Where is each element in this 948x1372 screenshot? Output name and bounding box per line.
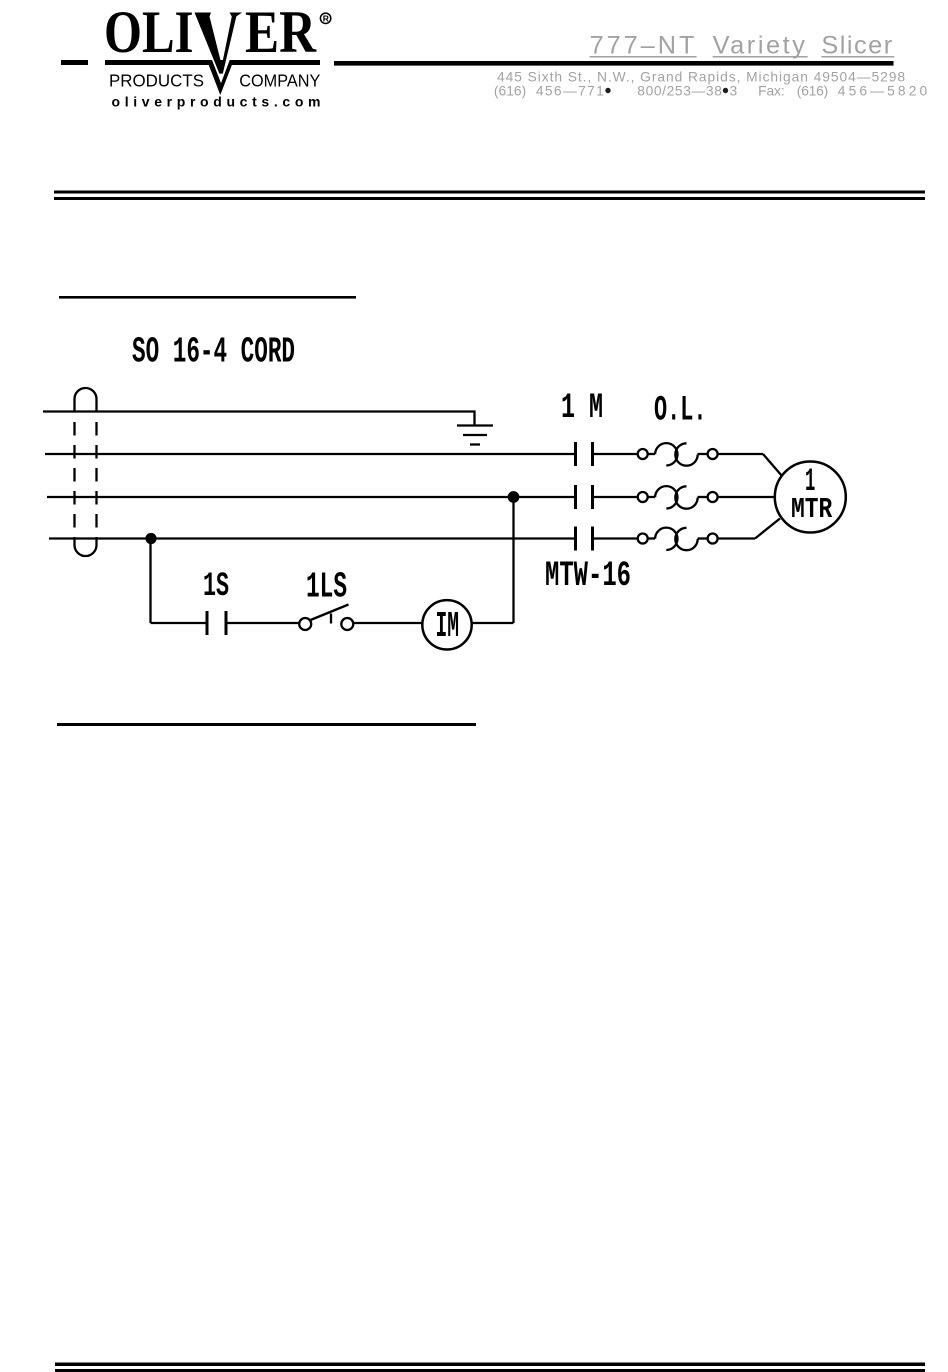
svg-text:(616): (616) bbox=[797, 84, 828, 99]
svg-text:ER: ER bbox=[245, 0, 317, 65]
svg-text:(616): (616) bbox=[494, 84, 526, 99]
svg-text:OLI: OLI bbox=[104, 0, 194, 65]
svg-text:SO 16-4 CORD: SO 16-4 CORD bbox=[132, 332, 295, 373]
svg-text:1S: 1S bbox=[203, 568, 229, 606]
svg-text:445 Sixth St., N.W., Grand Rap: 445 Sixth St., N.W., Grand Rapids, Michi… bbox=[497, 70, 905, 85]
svg-text:COMPANY: COMPANY bbox=[239, 71, 320, 91]
svg-text:456—771: 456—771 bbox=[536, 84, 604, 99]
svg-text:800/253—38: 800/253—38 bbox=[637, 84, 722, 99]
svg-text:O.L.: O.L. bbox=[654, 391, 707, 431]
svg-text:PRODUCTS: PRODUCTS bbox=[109, 71, 204, 91]
svg-text:Fax:: Fax: bbox=[758, 84, 785, 99]
svg-text:Slicer: Slicer bbox=[821, 32, 892, 60]
svg-text:MTW-16: MTW-16 bbox=[545, 556, 631, 596]
svg-text:456—5820: 456—5820 bbox=[838, 84, 928, 99]
svg-text:R: R bbox=[323, 13, 329, 23]
svg-text:1 M: 1 M bbox=[561, 388, 603, 428]
svg-text:Variety: Variety bbox=[713, 32, 806, 60]
svg-text:1LS: 1LS bbox=[306, 567, 347, 608]
svg-text:IM: IM bbox=[436, 606, 460, 647]
svg-text:oliverproducts.com: oliverproducts.com bbox=[112, 94, 321, 110]
svg-text:777–NT: 777–NT bbox=[590, 32, 695, 60]
svg-text:MTR: MTR bbox=[791, 493, 833, 526]
svg-text:3: 3 bbox=[730, 84, 738, 99]
